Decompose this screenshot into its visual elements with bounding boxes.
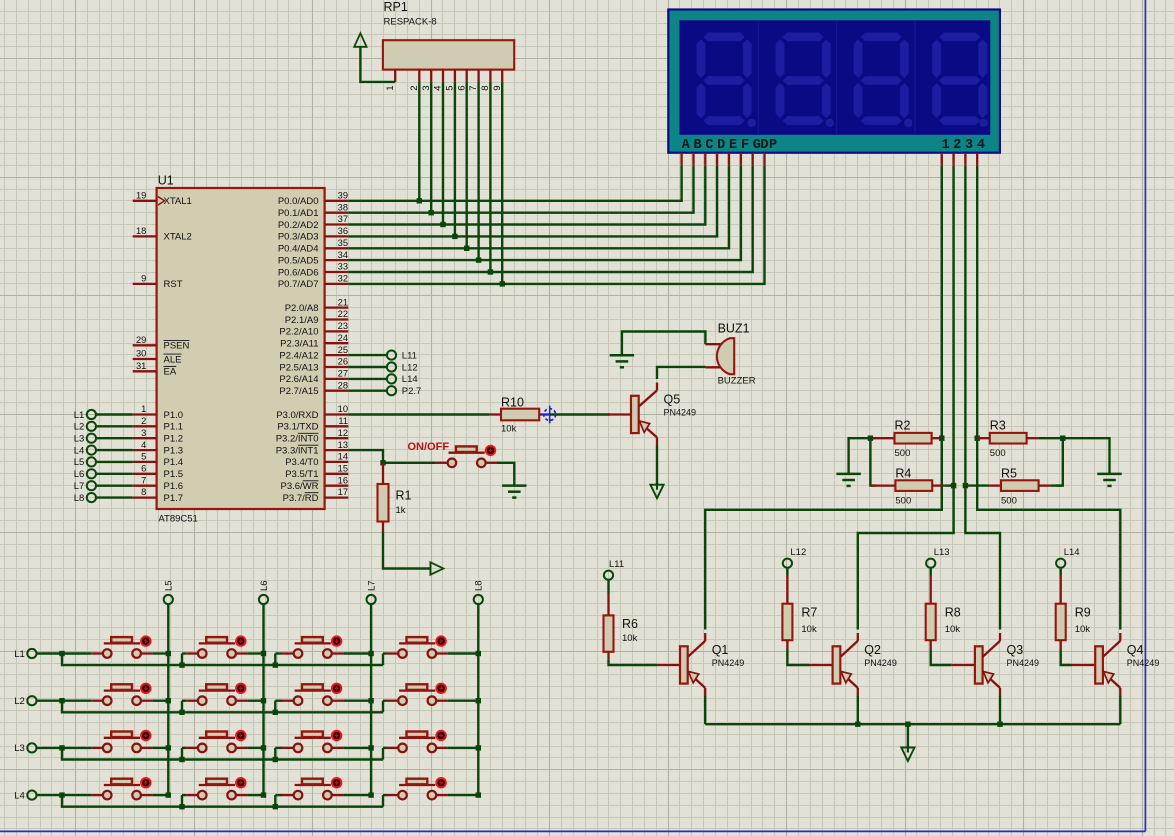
label Q3 <box>1007 643 1024 657</box>
wire digit4 net <box>977 165 1120 629</box>
display digit 2 segments <box>776 33 834 128</box>
pin 34 P0.5/AD5 <box>325 259 349 261</box>
pin label P0.4/AD4 <box>278 244 319 255</box>
pin number 4 <box>141 440 146 450</box>
junction rail Q2 <box>855 722 860 727</box>
label L12 <box>402 362 418 373</box>
wire row 1 bypass <box>62 654 383 666</box>
pin number 16 <box>338 475 348 485</box>
button row1 col2 <box>186 635 247 657</box>
terminal L4 row <box>27 791 36 800</box>
wire row 3 riser x275 <box>274 748 276 760</box>
display pin digit3 stub <box>964 153 966 166</box>
pin 3 P1.2 <box>133 437 157 439</box>
svg-text:L13: L13 <box>934 547 950 558</box>
pin number 22 <box>338 309 348 319</box>
wire column L8 <box>477 604 479 795</box>
value 10k R7 <box>801 624 817 635</box>
junction row 3 feed <box>59 745 64 750</box>
power symbol VCC <box>354 33 366 47</box>
pin number 33 <box>338 262 348 272</box>
label R10 <box>501 395 524 409</box>
pin label P1.3 <box>164 445 184 456</box>
display pin digit4 stub <box>976 153 978 166</box>
wire RP1 pin4 to P0.2 <box>442 82 444 225</box>
pin number 12 <box>338 428 348 438</box>
pin label P3.2/INT0 <box>276 433 319 444</box>
wire L13 to R8 <box>930 568 932 576</box>
resistor R9 <box>1056 576 1066 651</box>
wire L12 to R7 <box>786 568 788 576</box>
svg-text:Q3: Q3 <box>1007 643 1024 657</box>
svg-text:35: 35 <box>338 238 348 248</box>
svg-text:10k: 10k <box>501 424 517 435</box>
value PN4249 <box>664 408 697 418</box>
pin label P3.0/RXD <box>276 410 318 421</box>
svg-text:1: 1 <box>141 404 146 414</box>
label R3 <box>990 419 1006 433</box>
svg-text:A: A <box>682 138 691 153</box>
pin 9 RST <box>133 283 157 285</box>
svg-text:L4: L4 <box>74 445 85 456</box>
svg-text:6: 6 <box>141 464 146 474</box>
RP1 pin 2 stub <box>418 70 420 82</box>
pin number 9 <box>141 274 146 284</box>
terminal L1 <box>87 410 96 419</box>
pin number 15 <box>338 464 348 474</box>
junction row 1 feed <box>59 651 64 656</box>
svg-text:RP1: RP1 <box>384 0 408 14</box>
pin 2 P1.1 <box>133 425 157 427</box>
button row1 col3 <box>282 635 343 657</box>
svg-text:L14: L14 <box>1064 547 1080 558</box>
svg-text:1: 1 <box>941 138 949 153</box>
terminal P2.7 <box>387 386 396 395</box>
junction row 4 col L6 <box>261 792 266 797</box>
svg-text:L7: L7 <box>367 580 378 591</box>
label R2 <box>895 419 911 433</box>
terminal L3 <box>87 434 96 443</box>
pin number 35 <box>338 238 348 248</box>
value 500 R3 <box>990 448 1006 459</box>
svg-text:L1: L1 <box>74 410 85 421</box>
label L7 <box>74 481 85 492</box>
wire L7 to P1.6 <box>96 485 133 487</box>
pin number 5 <box>141 452 146 462</box>
svg-text:L5: L5 <box>74 457 85 468</box>
svg-text:P1.5: P1.5 <box>164 469 184 480</box>
junction row 2 bypass a <box>179 710 184 715</box>
resistor R10 <box>489 409 550 421</box>
svg-text:L6: L6 <box>74 469 85 480</box>
wire Q5 emitter to ground <box>656 446 658 485</box>
wire row 2 bypass <box>62 701 383 713</box>
value 500 R2 <box>895 448 911 459</box>
junction row 2 col L5 <box>166 698 171 703</box>
junction row 1 bypass b <box>273 662 278 667</box>
wire L1 terminal <box>36 652 62 654</box>
svg-text:P2.0/A8: P2.0/A8 <box>285 303 319 314</box>
pin 15 P3.5/T1 <box>325 473 349 475</box>
pin number 29 <box>136 335 146 345</box>
svg-text:RST: RST <box>164 279 183 290</box>
pin 5 P1.4 <box>133 461 157 463</box>
display pin A stub <box>680 153 682 166</box>
transistor Q1 PN4249 <box>657 633 705 696</box>
label L3 <box>74 434 85 445</box>
wire RP1 pin7 to P0.5 <box>477 82 479 260</box>
display digit labels 1234 <box>941 138 985 153</box>
svg-text:P3.3/INT1: P3.3/INT1 <box>276 445 319 456</box>
wire row 1 to button 4 <box>383 652 387 654</box>
label RP1 <box>384 0 408 14</box>
wire P2.4 to L11 <box>348 354 387 356</box>
op-chip U1 AT89C51 body <box>157 188 325 509</box>
wire row 4 riser x275 <box>274 795 276 807</box>
svg-text:P3.2/INT0: P3.2/INT0 <box>276 434 319 445</box>
svg-text:PN4249: PN4249 <box>664 408 697 418</box>
svg-text:P1.6: P1.6 <box>164 481 184 492</box>
pin 33 P0.6/AD6 <box>325 271 349 273</box>
pin label P0.5/AD5 <box>278 255 319 266</box>
terminal L12 top <box>783 559 792 568</box>
RP1 pin number 3 <box>421 85 432 90</box>
wire row 1 riser x182 <box>181 654 183 666</box>
pin 7 P1.6 <box>133 485 157 487</box>
junction row 4 col L8 <box>476 792 481 797</box>
svg-text:L12: L12 <box>402 362 418 373</box>
terminal L6 <box>87 469 96 478</box>
label ON/OFF <box>408 441 450 453</box>
svg-text:P1.7: P1.7 <box>164 493 184 504</box>
RP1 pin 7 stub <box>477 70 479 82</box>
pin number 21 <box>338 297 348 307</box>
svg-text:Q1: Q1 <box>712 643 729 657</box>
svg-text:R6: R6 <box>622 617 638 631</box>
svg-text:16: 16 <box>338 475 348 485</box>
pin 36 P0.3/AD3 <box>325 235 349 237</box>
ground arrow below Q5 <box>650 483 663 499</box>
svg-text:10k: 10k <box>622 633 638 644</box>
value PN4249 <box>1007 658 1040 668</box>
terminal L4 <box>87 446 96 455</box>
wire L3 to P1.2 <box>96 437 133 439</box>
wire row 1 riser x275 <box>274 654 276 666</box>
svg-text:PN4249: PN4249 <box>1007 658 1040 668</box>
pin label P3.7/RD <box>283 493 319 504</box>
value 1k R1 <box>396 505 406 516</box>
resistor R4 <box>870 480 953 491</box>
svg-text:P2.5/A13: P2.5/A13 <box>279 362 318 373</box>
svg-text:L7: L7 <box>74 481 85 492</box>
display pin digit2 stub <box>952 153 954 166</box>
pin label P1.6 <box>164 481 184 492</box>
junction row 2 col L8 <box>476 698 481 703</box>
wire digit3 net <box>965 165 1000 629</box>
svg-text:L1: L1 <box>14 649 25 660</box>
wire L14 to R9 <box>1059 568 1061 576</box>
svg-text:P3.5/T1: P3.5/T1 <box>285 469 318 480</box>
junction row 4 col L7 <box>368 792 373 797</box>
pin number 1 <box>141 404 146 414</box>
terminal L5 <box>87 457 96 466</box>
terminal L7 <box>87 481 96 490</box>
ground near R3 <box>1097 474 1121 486</box>
pin 19 XTAL1 <box>133 200 157 202</box>
resistor R2 <box>873 433 942 444</box>
label L1 <box>74 410 85 421</box>
wire column L7 <box>370 604 372 795</box>
pin label PSEN <box>164 340 190 351</box>
sheet border right <box>1144 0 1146 831</box>
svg-text:BUZ1: BUZ1 <box>718 321 750 335</box>
RP1 pin number 4 <box>433 85 444 91</box>
button row1 col4 <box>387 635 448 657</box>
wire R6 to Q1 base <box>609 660 658 665</box>
wire display E to P0.4 <box>348 165 729 248</box>
svg-text:EA: EA <box>164 367 177 378</box>
display digit 3 segments <box>854 33 913 128</box>
svg-text:L5: L5 <box>164 580 175 591</box>
RP1 pin number 5 <box>445 85 456 90</box>
RP1 pin number 1 <box>385 85 396 90</box>
wire digit2 net <box>858 165 954 629</box>
ground near R2 <box>836 474 860 486</box>
svg-text:R1: R1 <box>396 489 412 503</box>
wire Q5 collector to BUZ1 <box>657 367 705 379</box>
svg-text:L11: L11 <box>609 559 624 570</box>
RP1 pin number 2 <box>409 85 420 90</box>
pin 35 P0.4/AD4 <box>325 247 349 249</box>
wire row 1 to button 1 <box>62 652 91 654</box>
power symbol right <box>430 562 443 574</box>
wire display C to P0.2 <box>348 165 705 224</box>
wire Q4 emitter down <box>1119 696 1121 724</box>
button row2 col2 <box>186 683 247 705</box>
svg-text:R2: R2 <box>895 419 911 433</box>
junction row 3 col L7 <box>368 745 373 750</box>
wire R8 to Q3 base <box>931 650 952 665</box>
wire row 4 riser x383 <box>382 795 384 807</box>
label L12 top <box>790 547 806 558</box>
pin 23 P2.2/A10 <box>325 330 349 332</box>
pin label P0.3/AD3 <box>278 232 319 243</box>
pin 24 P2.3/A11 <box>325 342 349 344</box>
wire column L5 <box>167 604 169 795</box>
svg-text:2: 2 <box>953 138 961 153</box>
wire column L6 <box>262 604 264 795</box>
label R8 <box>945 606 961 620</box>
display pin F stub <box>740 153 742 166</box>
button row4 col1 <box>91 777 152 799</box>
svg-text:4: 4 <box>977 138 985 153</box>
svg-text:Q2: Q2 <box>864 643 881 657</box>
label L5 col <box>164 580 175 591</box>
pin number 17 <box>338 487 348 497</box>
svg-text:P0.5/AD5: P0.5/AD5 <box>278 255 319 266</box>
wire row 3 to button 2 <box>182 747 186 749</box>
svg-text:P1.4: P1.4 <box>164 457 184 468</box>
resistor R5 <box>965 480 1062 491</box>
svg-text:L2: L2 <box>14 696 25 707</box>
pin 14 P3.4/T0 <box>325 461 349 463</box>
pin label P0.1/AD1 <box>278 208 319 219</box>
wire button 1 to column L5 <box>153 700 169 702</box>
pin label P2.2/A10 <box>279 327 318 338</box>
pin number 14 <box>338 452 348 462</box>
svg-text:R3: R3 <box>990 419 1006 433</box>
svg-text:PN4249: PN4249 <box>864 658 897 668</box>
svg-text:L11: L11 <box>402 350 417 361</box>
wire row 4 to button 3 <box>275 794 282 796</box>
pin label P2.0/A8 <box>285 303 319 314</box>
RP1 pin 4 stub <box>442 70 444 82</box>
svg-text:P3.7/RD: P3.7/RD <box>283 493 319 504</box>
svg-text:L3: L3 <box>14 743 25 754</box>
pin number 19 <box>136 191 146 201</box>
svg-text:U1: U1 <box>158 173 174 187</box>
pin number 25 <box>338 345 348 355</box>
wire P2.7 to P2.7 <box>348 390 387 392</box>
wire button 3 to column L7 <box>343 700 371 702</box>
pin label P3.6/WR <box>280 481 318 492</box>
terminal L8 <box>87 493 96 502</box>
svg-text:P2.7/A15: P2.7/A15 <box>279 386 318 397</box>
button row4 col4 <box>387 777 448 799</box>
wire junction to switch <box>383 462 436 464</box>
svg-text:R9: R9 <box>1075 606 1091 620</box>
svg-text:BUZZER: BUZZER <box>718 376 756 387</box>
junction R2 digit1 <box>939 436 944 441</box>
svg-text:L14: L14 <box>402 374 418 385</box>
label P2.7 <box>402 386 422 397</box>
pin number 6 <box>141 464 146 474</box>
pin number 7 <box>141 475 146 485</box>
pin number 13 <box>338 440 348 450</box>
svg-text:PN4249: PN4249 <box>712 658 745 668</box>
pin 10 P3.0/RXD <box>325 413 349 415</box>
pin 22 P2.1/A9 <box>325 318 349 320</box>
pin 1 P1.0 <box>133 413 157 415</box>
label AT89C51 <box>158 513 197 524</box>
svg-text:P3.1/TXD: P3.1/TXD <box>277 422 318 433</box>
label L11 bottom <box>609 559 624 570</box>
wire rail to ground arrow <box>907 724 909 747</box>
wire RP1 pin2 to P0.0 <box>418 82 420 201</box>
display segment labels ABCDEFG DP <box>682 138 777 153</box>
pin number 39 <box>338 191 348 201</box>
pin number 8 <box>141 487 146 497</box>
pin number 31 <box>136 361 146 371</box>
wire RP1 pin6 to P0.4 <box>466 82 468 248</box>
display digit 4 segments <box>932 33 988 128</box>
svg-text:28: 28 <box>338 380 348 390</box>
label R1 <box>396 489 412 503</box>
terminal L5 top <box>164 595 173 604</box>
label R9 <box>1075 606 1091 620</box>
pin label P2.6/A14 <box>279 374 318 385</box>
pin number 27 <box>338 369 348 379</box>
svg-text:2: 2 <box>141 416 146 426</box>
ground arrow below rail <box>901 746 914 762</box>
svg-text:ALE: ALE <box>164 354 182 365</box>
wire button 2 to column L6 <box>248 700 264 702</box>
svg-text:39: 39 <box>338 191 348 201</box>
junction row 4 col L5 <box>166 792 171 797</box>
svg-text:10k: 10k <box>1075 624 1091 635</box>
value 500 R5 <box>1001 496 1017 507</box>
label R5 <box>1001 466 1017 480</box>
svg-text:34: 34 <box>338 250 348 260</box>
svg-text:500: 500 <box>895 448 911 459</box>
display digit 1 segments <box>697 33 756 128</box>
label L1 row <box>14 649 25 660</box>
pin number 38 <box>338 202 348 212</box>
junction row 3 bypass a <box>179 757 184 762</box>
wire BUZ1 to ground <box>622 332 706 356</box>
pin 28 P2.7/A15 <box>325 390 349 392</box>
pin number 32 <box>338 274 348 284</box>
pin label P3.1/TXD <box>277 422 318 433</box>
button row1 col1 <box>91 635 152 657</box>
display pin B stub <box>692 153 694 166</box>
terminal L8 top <box>474 595 483 604</box>
svg-text:E: E <box>729 138 737 153</box>
display pin D stub <box>716 153 718 166</box>
wire digit1 net <box>705 165 942 629</box>
svg-text:P2.3/A11: P2.3/A11 <box>280 339 318 350</box>
wire button 4 to column L8 <box>448 700 478 702</box>
wire R5 right riser <box>1056 438 1063 485</box>
svg-text:D: D <box>760 138 768 153</box>
svg-text:32: 32 <box>338 274 348 284</box>
wire row 1 to button 2 <box>182 652 186 654</box>
button row3 col4 <box>387 730 448 752</box>
wire L11 to R6 <box>607 580 609 593</box>
wire R2 left to R4 left <box>870 438 876 485</box>
pin number 2 <box>141 416 146 426</box>
wire row 2 riser x383 <box>382 701 384 713</box>
pin label XTAL2 <box>164 232 192 243</box>
display pin DP stub <box>763 153 765 166</box>
wire row 2 to button 1 <box>62 700 91 702</box>
pin 6 P1.5 <box>133 473 157 475</box>
pin label XTAL1 <box>164 196 192 207</box>
wire ground to R2 <box>849 438 876 474</box>
resistor R1 <box>378 463 389 531</box>
terminal L11 bottom <box>604 571 613 580</box>
terminal L2 row <box>27 696 36 705</box>
transistor Q5 PN4249 <box>608 383 657 446</box>
wire Q3 emitter down <box>999 696 1001 724</box>
label L14 top <box>1064 547 1080 558</box>
svg-text:26: 26 <box>338 357 348 367</box>
RP1 pin number 8 <box>480 85 491 90</box>
wire button 1 to column L5 <box>153 652 169 654</box>
pin 38 P0.1/AD1 <box>325 212 349 214</box>
pin label P1.7 <box>164 493 184 504</box>
button row4 col3 <box>282 777 343 799</box>
value PN4249 <box>712 658 745 668</box>
transistor Q3 PN4249 <box>952 633 1000 696</box>
value 10k R8 <box>945 624 961 635</box>
wire row 4 to button 1 <box>62 794 91 796</box>
label BUZ1 <box>718 321 750 335</box>
svg-text:29: 29 <box>136 335 146 345</box>
label L4 row <box>14 790 25 801</box>
value 10k R6 <box>622 633 638 644</box>
wire row 2 riser x275 <box>274 701 276 713</box>
